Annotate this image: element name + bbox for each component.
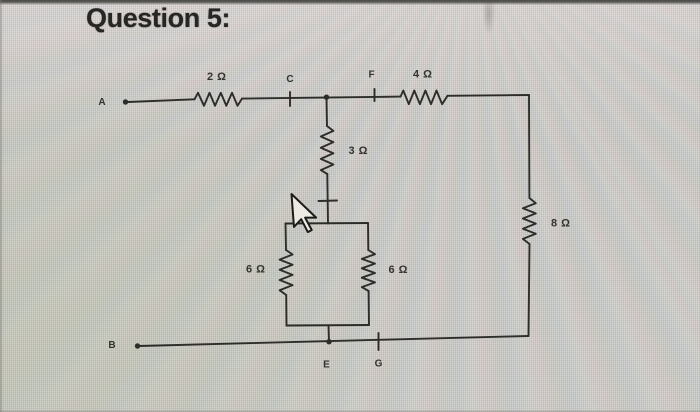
resistor R4b value label 6ohm (389, 264, 412, 276)
svg-text:E: E (323, 360, 330, 371)
svg-text:2Ω: 2Ω (207, 71, 230, 83)
svg-text:8Ω: 8Ω (551, 218, 574, 230)
node C label (286, 74, 293, 85)
node A label (98, 97, 105, 108)
junction dot top of middle branch (324, 95, 329, 100)
node B label (108, 340, 115, 351)
node A terminal dot (123, 99, 128, 104)
node C tick (289, 92, 291, 106)
svg-text:6Ω: 6Ω (389, 264, 412, 276)
node F tick (374, 89, 376, 101)
resistor R4a 6ohm zigzag left (280, 250, 293, 295)
svg-text:4Ω: 4Ω (413, 69, 436, 81)
resistor R2 value label 4ohm (413, 69, 436, 81)
resistor R5 8ohm zigzag (523, 198, 536, 244)
title (86, 3, 230, 34)
node F label (368, 70, 374, 81)
svg-text:B: B (108, 340, 115, 351)
wire R1 to node junction (through C tick) (242, 97, 401, 99)
resistor R5 value label 8ohm (551, 218, 574, 230)
svg-text:6Ω: 6Ω (246, 264, 269, 276)
junction dot node E (326, 339, 331, 344)
node B terminal dot (135, 343, 140, 348)
svg-text:A: A (98, 97, 105, 108)
box left edge lower (285, 295, 287, 326)
svg-text:F: F (368, 70, 374, 81)
wire R2 to top-right corner (448, 94, 530, 97)
resistor R3 value label 3ohm (349, 145, 372, 157)
box bottom edge (287, 324, 370, 327)
stub box bottom to bottom wire (328, 326, 331, 342)
wire right side lower segment (529, 244, 530, 336)
bottom wire B to bottom-right corner (139, 336, 529, 346)
resistor R1 value label 2ohm (207, 71, 230, 83)
box right edge lower (368, 291, 370, 325)
node G label (375, 359, 383, 370)
box left edge upper (285, 224, 288, 251)
resistor R2 4ohm zigzag (401, 91, 448, 105)
wire right side upper segment (528, 95, 530, 198)
svg-text:C: C (286, 74, 293, 85)
resistor R3 3ohm zigzag (321, 126, 334, 174)
resistor R4b 6ohm zigzag right (362, 250, 375, 291)
resistor R1 2ohm zigzag (195, 93, 243, 106)
svg-text:G: G (375, 359, 383, 370)
resistor R4a value label 6ohm (246, 264, 269, 276)
tick cross on middle branch (319, 200, 338, 203)
box top edge (286, 222, 369, 225)
wire middle branch lower (326, 174, 329, 224)
node E label (323, 360, 330, 371)
mouse cursor (292, 192, 318, 233)
svg-text:3Ω: 3Ω (349, 145, 372, 157)
wire middle branch upper (326, 97, 329, 126)
box right edge upper (367, 223, 369, 250)
wire A to R1 (128, 99, 195, 102)
node G tick (378, 333, 380, 350)
